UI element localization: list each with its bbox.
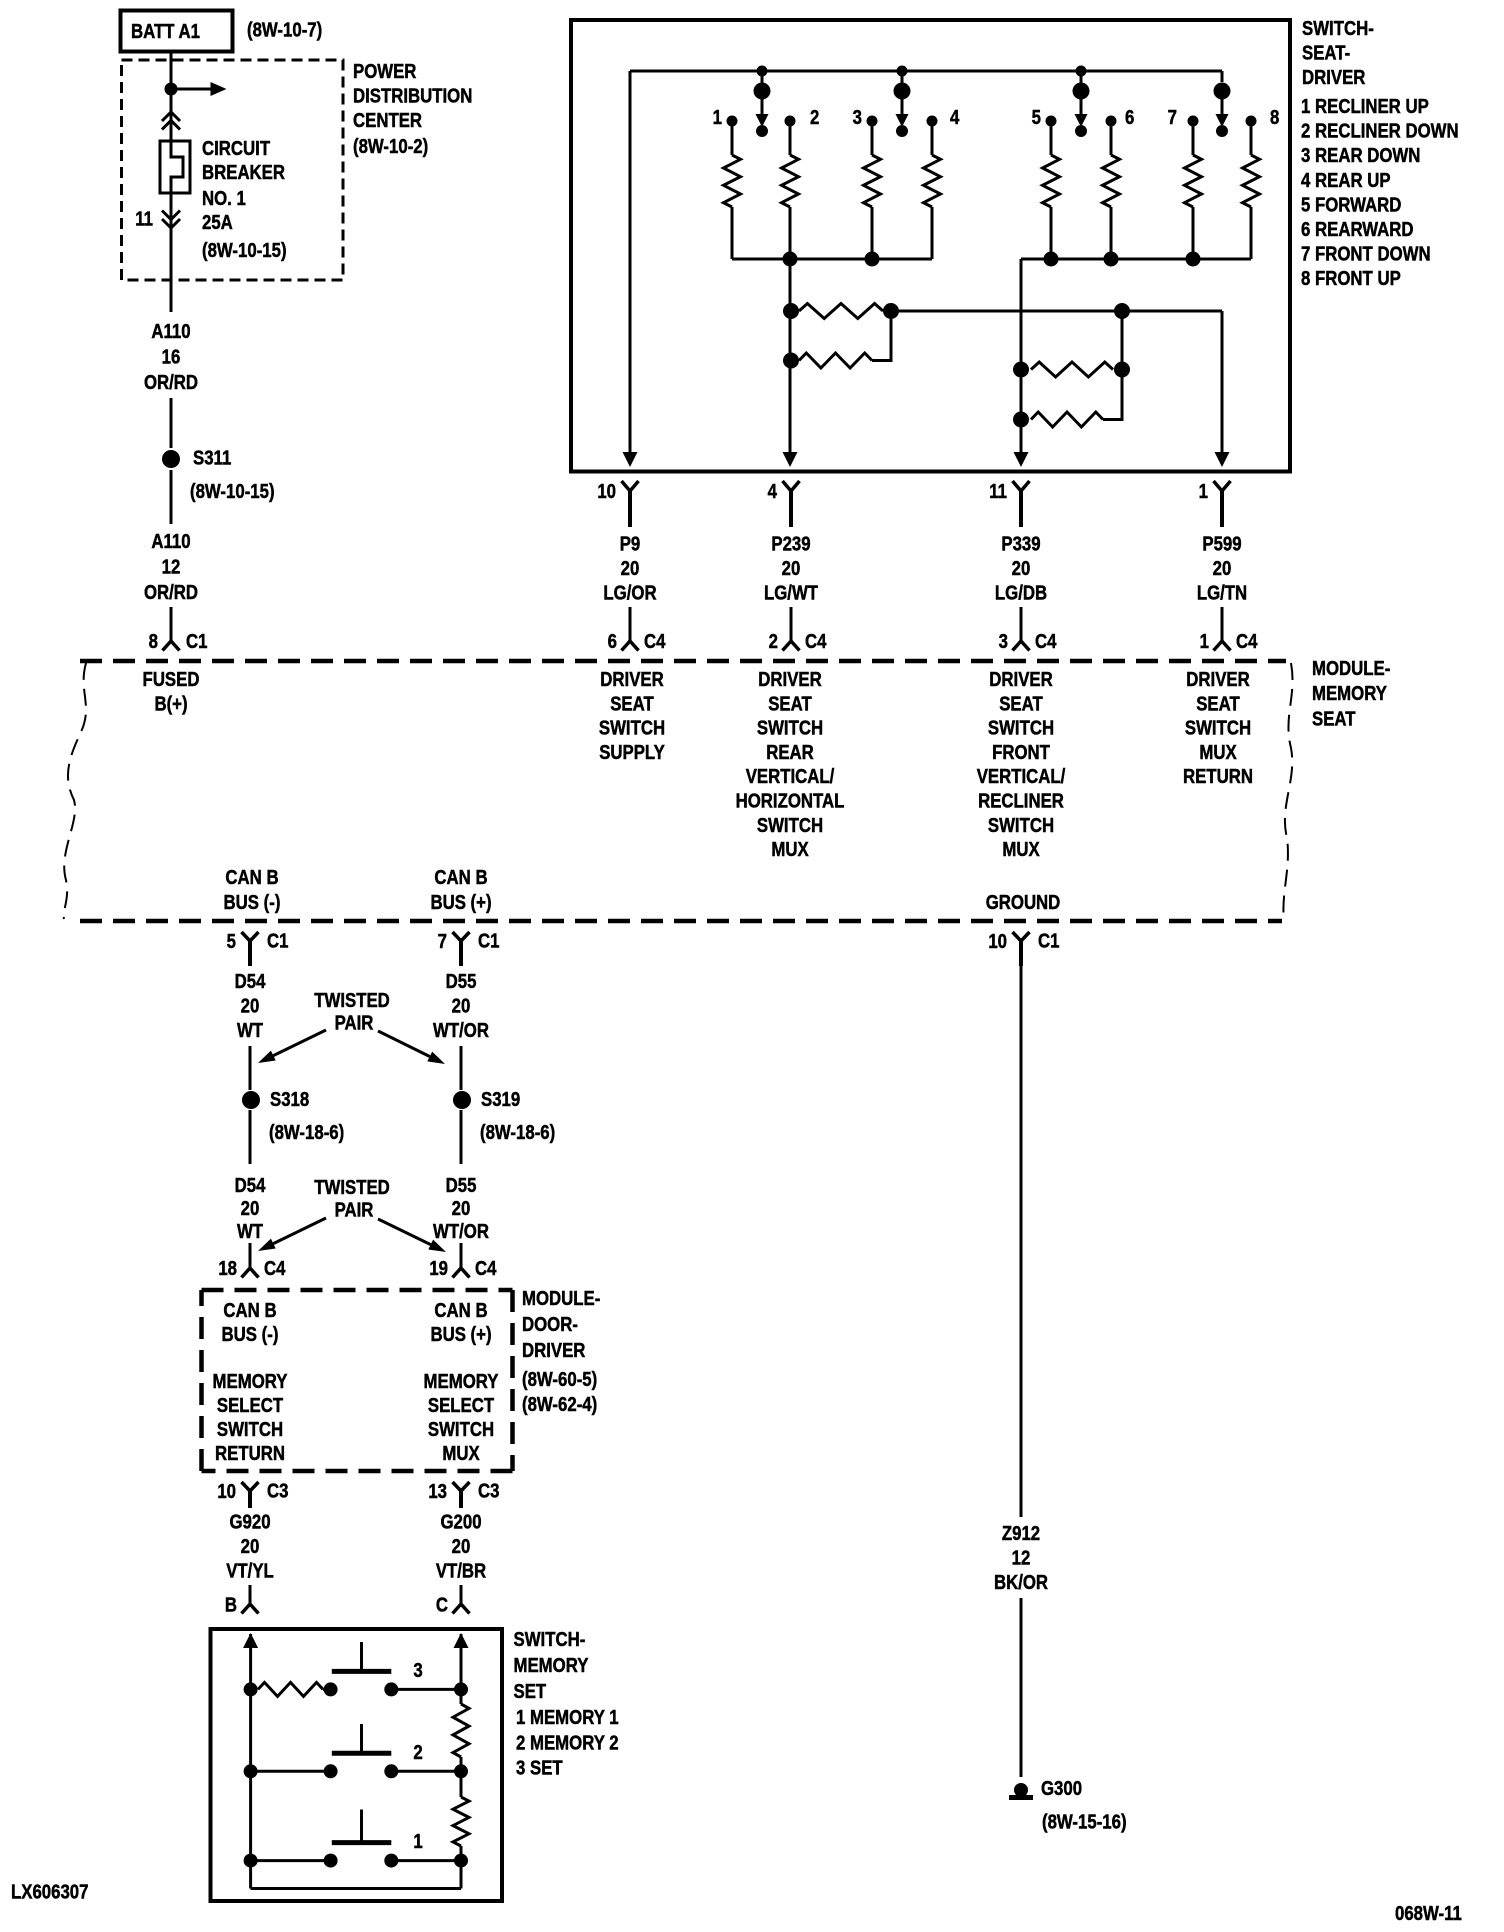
svg-text:20: 20 — [241, 1197, 260, 1220]
svg-text:RECLINER: RECLINER — [978, 789, 1064, 812]
svg-text:G920: G920 — [229, 1510, 270, 1533]
svg-text:SEAT: SEAT — [610, 692, 654, 715]
svg-text:P9: P9 — [620, 532, 641, 555]
svg-text:VERTICAL/: VERTICAL/ — [977, 765, 1066, 788]
svg-text:DRIVER: DRIVER — [989, 668, 1052, 691]
svg-text:SWITCH-: SWITCH- — [1302, 17, 1374, 40]
svg-text:(8W-10-15): (8W-10-15) — [190, 480, 275, 503]
svg-text:CAN B: CAN B — [223, 1299, 276, 1322]
svg-text:C4: C4 — [805, 630, 827, 653]
svg-text:VT/BR: VT/BR — [436, 1559, 486, 1582]
svg-text:16: 16 — [162, 345, 181, 368]
svg-text:5: 5 — [1032, 106, 1041, 129]
svg-text:CENTER: CENTER — [353, 109, 422, 132]
svg-text:C3: C3 — [267, 1479, 288, 1502]
svg-text:20: 20 — [1012, 557, 1031, 580]
svg-text:7 FRONT DOWN: 7 FRONT DOWN — [1301, 242, 1431, 265]
svg-text:068W-11: 068W-11 — [1395, 1902, 1462, 1925]
svg-text:D55: D55 — [446, 1174, 477, 1197]
svg-text:SEAT: SEAT — [999, 692, 1043, 715]
svg-text:7: 7 — [438, 930, 447, 953]
svg-text:2 MEMORY 2: 2 MEMORY 2 — [516, 1731, 619, 1754]
svg-text:DRIVER: DRIVER — [758, 668, 821, 691]
svg-text:S311: S311 — [193, 446, 231, 469]
svg-text:HORIZONTAL: HORIZONTAL — [736, 789, 845, 812]
svg-text:LX606307: LX606307 — [11, 1880, 88, 1903]
svg-text:D55: D55 — [446, 970, 477, 993]
svg-text:MEMORY: MEMORY — [1312, 682, 1388, 705]
svg-text:SWITCH-: SWITCH- — [514, 1628, 586, 1651]
svg-text:DRIVER: DRIVER — [522, 1339, 585, 1362]
svg-text:RETURN: RETURN — [1183, 765, 1253, 788]
svg-text:LG/OR: LG/OR — [603, 581, 656, 604]
svg-text:S319: S319 — [481, 1088, 520, 1111]
svg-text:S318: S318 — [270, 1088, 309, 1111]
svg-text:6: 6 — [1125, 106, 1134, 129]
svg-text:C4: C4 — [644, 630, 666, 653]
svg-text:D54: D54 — [235, 1174, 266, 1197]
svg-text:8: 8 — [1270, 106, 1279, 129]
svg-text:6 REARWARD: 6 REARWARD — [1301, 218, 1414, 241]
svg-text:BUS (-): BUS (-) — [224, 891, 281, 914]
svg-text:SUPPLY: SUPPLY — [599, 740, 665, 763]
svg-text:PAIR: PAIR — [335, 1198, 374, 1221]
svg-text:SEAT-: SEAT- — [1302, 41, 1350, 64]
svg-text:10: 10 — [217, 1480, 236, 1503]
svg-text:TWISTED: TWISTED — [314, 989, 390, 1012]
svg-text:C4: C4 — [264, 1257, 286, 1280]
svg-text:5 FORWARD: 5 FORWARD — [1301, 193, 1401, 216]
svg-text:WT/OR: WT/OR — [433, 1019, 489, 1042]
svg-text:MUX: MUX — [771, 838, 809, 861]
svg-text:11: 11 — [989, 480, 1007, 503]
svg-text:8 FRONT UP: 8 FRONT UP — [1301, 267, 1401, 290]
svg-text:13: 13 — [428, 1480, 447, 1503]
svg-text:SEAT: SEAT — [768, 692, 812, 715]
svg-text:NO. 1: NO. 1 — [202, 187, 246, 210]
svg-text:CAN B: CAN B — [434, 866, 487, 889]
svg-text:3 SET: 3 SET — [516, 1756, 563, 1779]
svg-text:MEMORY: MEMORY — [514, 1654, 590, 1677]
svg-text:3 REAR DOWN: 3 REAR DOWN — [1301, 144, 1420, 167]
svg-text:P339: P339 — [1001, 532, 1040, 555]
svg-text:MEMORY: MEMORY — [213, 1370, 289, 1393]
svg-text:SEAT: SEAT — [1312, 707, 1356, 730]
svg-text:19: 19 — [429, 1257, 448, 1280]
svg-text:6: 6 — [608, 630, 617, 653]
svg-text:(8W-18-6): (8W-18-6) — [480, 1121, 555, 1144]
svg-text:LG/DB: LG/DB — [995, 581, 1047, 604]
svg-text:D54: D54 — [235, 970, 266, 993]
svg-text:2: 2 — [769, 630, 778, 653]
svg-text:FUSED: FUSED — [143, 668, 200, 691]
svg-text:REAR: REAR — [766, 740, 814, 763]
svg-text:10: 10 — [597, 480, 616, 503]
svg-text:8: 8 — [149, 630, 158, 653]
svg-text:P239: P239 — [771, 532, 810, 555]
svg-text:20: 20 — [782, 557, 801, 580]
svg-text:SWITCH: SWITCH — [217, 1418, 283, 1441]
svg-text:MODULE-: MODULE- — [1312, 657, 1390, 680]
svg-text:MEMORY: MEMORY — [424, 1370, 500, 1393]
svg-text:GROUND: GROUND — [986, 891, 1061, 914]
svg-text:MUX: MUX — [1002, 838, 1040, 861]
svg-text:OR/RD: OR/RD — [144, 371, 198, 394]
svg-text:RETURN: RETURN — [215, 1442, 285, 1465]
svg-text:SWITCH: SWITCH — [428, 1418, 494, 1441]
svg-text:SWITCH: SWITCH — [988, 716, 1054, 739]
svg-text:BREAKER: BREAKER — [202, 161, 285, 184]
svg-text:SET: SET — [514, 1680, 547, 1703]
svg-text:20: 20 — [452, 1197, 471, 1220]
svg-text:DRIVER: DRIVER — [1186, 668, 1249, 691]
svg-text:20: 20 — [452, 994, 471, 1017]
svg-text:(8W-10-2): (8W-10-2) — [353, 135, 428, 158]
svg-text:FRONT: FRONT — [992, 740, 1050, 763]
svg-text:MUX: MUX — [442, 1442, 480, 1465]
svg-text:DRIVER: DRIVER — [1302, 66, 1365, 89]
svg-text:2: 2 — [413, 1740, 422, 1763]
svg-text:B(+): B(+) — [154, 692, 187, 715]
svg-text:20: 20 — [1213, 557, 1232, 580]
svg-text:C1: C1 — [267, 929, 288, 952]
svg-text:G200: G200 — [440, 1510, 481, 1533]
svg-text:LG/WT: LG/WT — [764, 581, 819, 604]
svg-text:MODULE-: MODULE- — [522, 1287, 600, 1310]
svg-text:2: 2 — [810, 106, 819, 129]
svg-text:4: 4 — [950, 106, 960, 129]
svg-text:(8W-10-7): (8W-10-7) — [247, 18, 322, 41]
svg-text:(8W-18-6): (8W-18-6) — [269, 1121, 344, 1144]
svg-text:C1: C1 — [1038, 929, 1059, 952]
svg-text:C4: C4 — [475, 1257, 497, 1280]
svg-text:(8W-62-4): (8W-62-4) — [522, 1393, 597, 1416]
svg-text:20: 20 — [241, 1535, 260, 1558]
svg-text:12: 12 — [1012, 1546, 1031, 1569]
svg-text:1: 1 — [413, 1830, 422, 1853]
svg-text:SWITCH: SWITCH — [757, 813, 823, 836]
svg-text:SELECT: SELECT — [217, 1394, 284, 1417]
svg-text:20: 20 — [241, 994, 260, 1017]
svg-text:1 RECLINER UP: 1 RECLINER UP — [1301, 95, 1429, 118]
svg-text:(8W-15-16): (8W-15-16) — [1042, 1810, 1127, 1833]
svg-text:1 MEMORY 1: 1 MEMORY 1 — [516, 1706, 619, 1729]
svg-text:1: 1 — [1200, 630, 1209, 653]
svg-text:BATT A1: BATT A1 — [131, 20, 200, 43]
svg-text:SWITCH: SWITCH — [988, 813, 1054, 836]
svg-text:G300: G300 — [1041, 1777, 1082, 1800]
svg-text:3: 3 — [413, 1658, 422, 1681]
svg-text:18: 18 — [218, 1257, 237, 1280]
svg-text:VT/YL: VT/YL — [226, 1559, 274, 1582]
svg-text:1: 1 — [713, 106, 722, 129]
svg-text:2 RECLINER DOWN: 2 RECLINER DOWN — [1301, 119, 1459, 142]
svg-text:BUS (+): BUS (+) — [430, 1323, 491, 1346]
svg-text:CIRCUIT: CIRCUIT — [202, 137, 271, 160]
svg-text:LG/TN: LG/TN — [1197, 581, 1247, 604]
svg-text:C4: C4 — [1236, 630, 1258, 653]
svg-text:7: 7 — [1168, 106, 1177, 129]
svg-text:WT: WT — [237, 1019, 264, 1042]
svg-text:WT: WT — [237, 1220, 264, 1243]
svg-text:SWITCH: SWITCH — [757, 716, 823, 739]
svg-text:B: B — [225, 1593, 237, 1616]
svg-text:4: 4 — [768, 480, 778, 503]
svg-text:DISTRIBUTION: DISTRIBUTION — [353, 84, 472, 107]
svg-text:C: C — [436, 1593, 448, 1616]
svg-text:POWER: POWER — [353, 60, 416, 83]
svg-text:OR/RD: OR/RD — [144, 581, 198, 604]
svg-text:SEAT: SEAT — [1196, 692, 1240, 715]
svg-text:C4: C4 — [1035, 630, 1057, 653]
svg-text:MUX: MUX — [1199, 740, 1237, 763]
svg-text:C1: C1 — [186, 630, 207, 653]
svg-text:BUS (-): BUS (-) — [222, 1323, 279, 1346]
svg-text:BK/OR: BK/OR — [994, 1571, 1048, 1594]
svg-text:3: 3 — [999, 630, 1008, 653]
svg-text:TWISTED: TWISTED — [314, 1176, 390, 1199]
svg-text:12: 12 — [162, 555, 181, 578]
svg-text:(8W-60-5): (8W-60-5) — [522, 1368, 597, 1391]
svg-text:VERTICAL/: VERTICAL/ — [746, 765, 835, 788]
svg-text:A110: A110 — [151, 530, 190, 553]
svg-text:20: 20 — [621, 557, 640, 580]
svg-text:Z912: Z912 — [1002, 1522, 1040, 1545]
svg-text:(8W-10-15): (8W-10-15) — [202, 239, 287, 262]
svg-text:DOOR-: DOOR- — [522, 1313, 578, 1336]
svg-text:5: 5 — [227, 930, 236, 953]
svg-text:WT/OR: WT/OR — [433, 1220, 489, 1243]
svg-text:SWITCH: SWITCH — [599, 716, 665, 739]
svg-text:SWITCH: SWITCH — [1185, 716, 1251, 739]
svg-text:25A: 25A — [202, 211, 233, 234]
svg-text:DRIVER: DRIVER — [600, 668, 663, 691]
svg-text:4 REAR UP: 4 REAR UP — [1301, 168, 1391, 191]
svg-text:C3: C3 — [478, 1479, 499, 1502]
svg-text:CAN B: CAN B — [225, 866, 278, 889]
svg-text:CAN B: CAN B — [434, 1299, 487, 1322]
svg-text:11: 11 — [135, 207, 153, 230]
svg-text:P599: P599 — [1202, 532, 1241, 555]
svg-text:1: 1 — [1199, 480, 1208, 503]
svg-text:SELECT: SELECT — [428, 1394, 495, 1417]
svg-text:C1: C1 — [478, 929, 499, 952]
svg-text:PAIR: PAIR — [335, 1011, 374, 1034]
svg-text:10: 10 — [988, 930, 1007, 953]
svg-text:BUS (+): BUS (+) — [430, 891, 491, 914]
svg-text:A110: A110 — [151, 320, 190, 343]
svg-text:20: 20 — [452, 1535, 471, 1558]
svg-text:3: 3 — [853, 106, 862, 129]
